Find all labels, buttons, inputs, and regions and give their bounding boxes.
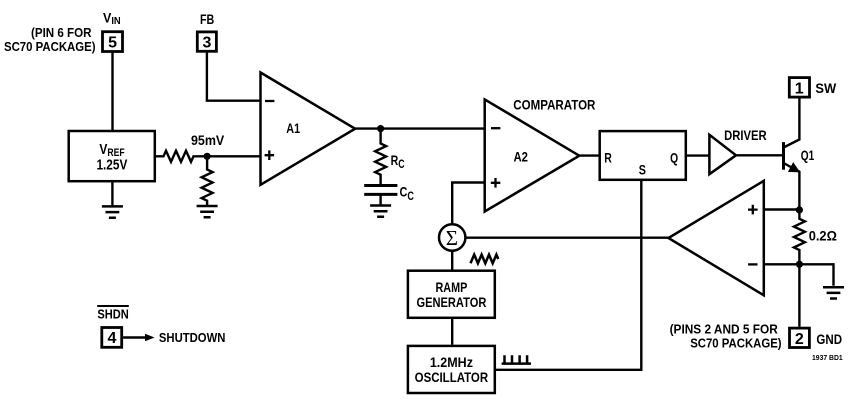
svg-text:OSCILLATOR: OSCILLATOR [415, 369, 489, 385]
svg-text:SHUTDOWN: SHUTDOWN [159, 330, 226, 345]
svg-text:GND: GND [816, 331, 842, 347]
svg-text:5: 5 [108, 35, 117, 52]
svg-text:1.2MHz: 1.2MHz [430, 354, 473, 370]
svg-text:(PINS 2 AND 5 FOR: (PINS 2 AND 5 FOR [670, 322, 779, 337]
svg-text:1937 BD1: 1937 BD1 [812, 355, 843, 362]
svg-text:GENERATOR: GENERATOR [416, 294, 486, 310]
svg-text:Q: Q [670, 150, 678, 166]
svg-text:(PIN 6 FOR: (PIN 6 FOR [31, 25, 92, 40]
svg-text:1: 1 [795, 80, 804, 97]
svg-text:4: 4 [108, 330, 117, 347]
svg-text:2: 2 [795, 331, 804, 348]
svg-text:0.2Ω: 0.2Ω [809, 228, 837, 244]
svg-text:R: R [604, 150, 612, 166]
svg-text:RAMP: RAMP [436, 279, 468, 295]
svg-text:SHDN: SHDN [97, 307, 128, 322]
svg-text:S: S [639, 162, 646, 178]
svg-text:1.25V: 1.25V [96, 157, 127, 174]
svg-text:Σ: Σ [446, 226, 458, 250]
svg-text:SW: SW [815, 80, 837, 96]
svg-text:FB: FB [200, 11, 214, 27]
svg-text:Q1: Q1 [801, 147, 815, 163]
svg-text:SC70 PACKAGE): SC70 PACKAGE) [4, 39, 96, 54]
svg-text:COMPARATOR: COMPARATOR [513, 96, 595, 112]
svg-text:DRIVER: DRIVER [724, 127, 767, 143]
svg-text:A2: A2 [513, 148, 528, 164]
svg-text:95mV: 95mV [191, 132, 225, 148]
svg-text:3: 3 [203, 35, 212, 52]
svg-text:A1: A1 [286, 120, 300, 136]
svg-text:SC70 PACKAGE): SC70 PACKAGE) [690, 336, 781, 351]
